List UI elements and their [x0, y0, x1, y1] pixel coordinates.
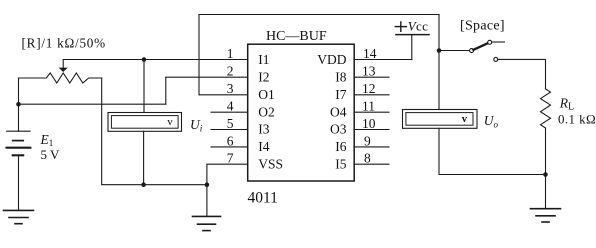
- wire pot right down to bus: [102, 78, 207, 185]
- wire RL bottom: [545, 128, 547, 208]
- svg-text:v: v: [462, 114, 468, 125]
- wire wiper to pin 1 I1: [63, 59, 248, 61]
- pin stub 12: [354, 94, 389, 96]
- pin stub 11: [354, 111, 389, 113]
- node output bus right: [543, 172, 548, 177]
- ground right: [531, 209, 561, 222]
- wire riser O1 to top rail: [198, 15, 200, 95]
- svg-text:I8: I8: [335, 69, 346, 84]
- svg-text:6: 6: [227, 133, 234, 148]
- svg-text:4011: 4011: [248, 190, 278, 207]
- svg-text:8: 8: [364, 151, 371, 166]
- pin stub 8: [354, 163, 389, 165]
- voltmeter Ui: [108, 113, 182, 132]
- svg-text:I7: I7: [335, 87, 346, 102]
- pin stub 9: [354, 146, 389, 148]
- svg-text:VDD: VDD: [317, 52, 346, 67]
- pin stub 13: [354, 76, 389, 78]
- svg-text:I4: I4: [258, 139, 269, 154]
- wire Ui bottom: [143, 131, 145, 184]
- node switch feed: [437, 48, 442, 53]
- svg-text:Vcc: Vcc: [408, 19, 428, 34]
- pin stub 6 I4: [211, 146, 248, 148]
- pin stub 4 O2: [211, 111, 248, 113]
- node Ui bottom junction: [141, 182, 146, 187]
- svg-text:O1: O1: [258, 87, 275, 102]
- wire to switch left contact: [439, 50, 470, 52]
- svg-text:4: 4: [227, 99, 234, 114]
- node battery plus: [16, 102, 21, 107]
- svg-text:9: 9: [364, 133, 371, 148]
- wire right rail down to Uo: [438, 15, 440, 110]
- svg-text:[R]/1 kΩ/50%: [R]/1 kΩ/50%: [22, 36, 106, 51]
- pin stub 5 I3: [211, 129, 248, 131]
- svg-text:I1: I1: [258, 52, 269, 67]
- power +Vcc: [395, 19, 429, 60]
- svg-text:HC—BUF: HC—BUF: [266, 29, 327, 44]
- svg-text:7: 7: [227, 151, 234, 166]
- svg-text:I2: I2: [258, 69, 269, 84]
- svg-text:0.1 kΩ: 0.1 kΩ: [558, 111, 596, 126]
- voltmeter Uo: [403, 110, 478, 129]
- wire Uo bottom bus: [439, 128, 546, 174]
- wire to pin 2 I2: [166, 76, 248, 78]
- potentiometer R body: [19, 73, 102, 83]
- wire switch to RL: [498, 59, 546, 88]
- svg-text:VSS: VSS: [258, 156, 283, 171]
- svg-text:11: 11: [362, 99, 375, 114]
- svg-text:1: 1: [227, 46, 234, 61]
- svg-text:14: 14: [363, 46, 377, 61]
- potentiometer wiper arrow: [60, 60, 66, 72]
- wire riser to pin 7 VSS: [207, 164, 248, 185]
- svg-text:I5: I5: [335, 156, 346, 171]
- ground left: [4, 210, 34, 223]
- ground middle: [193, 216, 221, 230]
- svg-text:I6: I6: [335, 139, 346, 154]
- node VSS junction: [205, 182, 210, 187]
- switch J1 [Space]: [470, 40, 505, 61]
- wire top rail: [199, 14, 439, 16]
- svg-text:5: 5: [227, 116, 234, 131]
- svg-text:10: 10: [362, 116, 376, 131]
- wire battery node right: [19, 103, 166, 105]
- wire pin 3 O1: [199, 94, 248, 96]
- wire middle ground drop: [206, 185, 208, 217]
- node wiper/Ui junction: [142, 57, 147, 62]
- wire riser to pin 2: [165, 77, 167, 104]
- pin stub 10: [354, 129, 389, 131]
- svg-text:13: 13: [362, 64, 376, 79]
- IC U1 4011 box: [248, 44, 355, 181]
- svg-text:O4: O4: [330, 104, 347, 119]
- svg-text:O2: O2: [258, 104, 275, 119]
- wire pin 14 VDD: [354, 59, 412, 61]
- svg-text:2: 2: [227, 64, 234, 79]
- svg-text:O3: O3: [330, 122, 347, 137]
- svg-text:3: 3: [227, 81, 234, 96]
- wire pot left down: [18, 78, 20, 104]
- svg-text:12: 12: [362, 81, 376, 96]
- svg-text:5 V: 5 V: [41, 147, 61, 162]
- resistor RL: [541, 89, 551, 128]
- battery E1: [7, 104, 31, 210]
- pin numbers and labels: [227, 46, 377, 171]
- svg-text:v: v: [167, 116, 173, 128]
- wire Ui top: [143, 60, 145, 113]
- svg-text:[Space]: [Space]: [460, 18, 505, 33]
- svg-text:I3: I3: [258, 122, 269, 137]
